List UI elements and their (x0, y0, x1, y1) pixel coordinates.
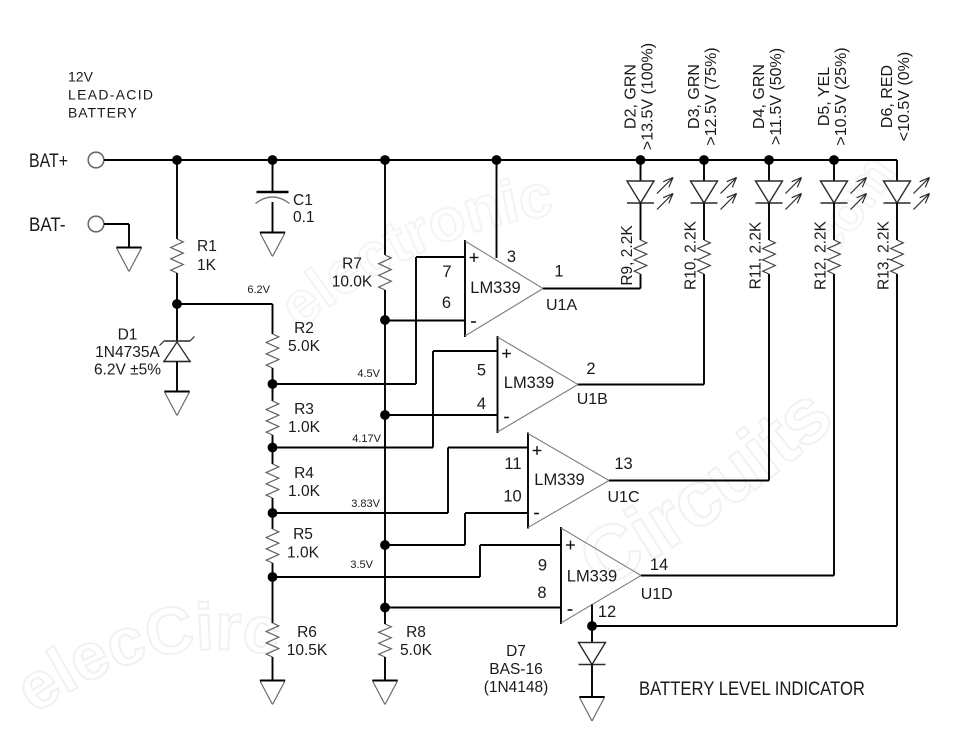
svg-text:10.0K: 10.0K (332, 274, 373, 291)
svg-text:R1: R1 (197, 238, 217, 255)
resistor R3 (266, 401, 279, 435)
node sense U1B (380, 410, 390, 420)
node 4.5V (268, 379, 278, 389)
svg-text:R12, 2.2K: R12, 2.2K (813, 220, 830, 290)
wire bus to C1 (272, 160, 274, 192)
svg-text:>11.5V (50%): >11.5V (50%) (768, 48, 785, 145)
svg-text:6.2V: 6.2V (247, 284, 270, 296)
wire R4 to node 3.83V (272, 498, 274, 529)
wire R13 down (896, 274, 898, 626)
wire node 6.2V to ladder (177, 303, 273, 305)
wire bus to R1 (176, 160, 178, 239)
wire R3 to node 4.17V (272, 435, 274, 464)
wire node 3.5V branch (273, 576, 481, 578)
svg-text:R3: R3 (294, 401, 314, 418)
op-amp U1B minus (504, 417, 509, 419)
svg-text:LM339: LM339 (470, 279, 520, 297)
ground D7 (579, 696, 604, 698)
wire node pin12 to D6 chain (592, 625, 897, 627)
wire bus to pin 3 (496, 160, 498, 258)
svg-text:4.5V: 4.5V (357, 368, 380, 380)
op-amp U1A plus (470, 257, 479, 259)
svg-text:D1: D1 (118, 327, 138, 344)
svg-text:13: 13 (614, 455, 632, 473)
op-amp U1C minus (534, 513, 539, 515)
ground BAT- (116, 246, 141, 248)
svg-text:BATTERY LEVEL INDICATOR: BATTERY LEVEL INDICATOR (639, 679, 865, 700)
svg-text:D5, YEL: D5, YEL (816, 67, 833, 126)
wire U1A output (543, 288, 641, 290)
LED D2 (627, 181, 654, 203)
op-amp U1B (497, 336, 499, 433)
resistor R5 (266, 529, 279, 563)
op-amp U1C plus (533, 450, 542, 452)
LED D6 (884, 181, 911, 203)
ground C1 (260, 231, 285, 233)
svg-text:5.0K: 5.0K (288, 338, 321, 355)
svg-text:3.5V: 3.5V (350, 559, 373, 571)
wire R6 to ground (272, 657, 274, 681)
wire bus to LED D6 (896, 160, 898, 181)
op-amp U1B plus (502, 353, 511, 355)
resistor R10 (698, 240, 711, 274)
svg-text:D6, RED: D6, RED (879, 65, 896, 128)
wire node 4.17V branch (273, 447, 434, 449)
wire C1 to ground (272, 202, 274, 233)
LED D5 (821, 181, 848, 203)
wire node 3.83V branch (273, 512, 449, 514)
resistor R1 (171, 239, 184, 273)
svg-text:14: 14 (650, 556, 668, 574)
resistor R9 (634, 240, 647, 274)
op-amp U1C (527, 433, 529, 529)
svg-text:3: 3 (507, 248, 516, 266)
wire bus to LED D3 (703, 160, 705, 181)
ground R8 (372, 679, 397, 681)
svg-text:<10.5V (0%): <10.5V (0%) (896, 52, 913, 141)
svg-text:7: 7 (442, 263, 451, 281)
svg-text:0.1: 0.1 (293, 209, 315, 226)
svg-text:5.0K: 5.0K (400, 642, 433, 659)
wire BAT- to ground (104, 223, 129, 225)
wire BAT+ bus (104, 159, 897, 161)
ground D1 (164, 390, 189, 392)
svg-text:R8: R8 (406, 624, 426, 641)
resistor R12 (828, 240, 841, 274)
svg-text:R6: R6 (297, 624, 317, 641)
svg-text:R11, 2.2K: R11, 2.2K (748, 221, 765, 289)
wire R8 to ground (384, 657, 386, 681)
svg-text:BAT+: BAT+ (29, 150, 68, 172)
svg-text:BAS-16: BAS-16 (489, 661, 542, 678)
svg-text:4.17V: 4.17V (352, 433, 381, 445)
node bus junctions (172, 155, 182, 165)
wire sense to U1B inverting (385, 414, 498, 416)
capacitor C1 (257, 191, 289, 194)
wire pin 12 to node (591, 605, 593, 627)
svg-text:U1C: U1C (608, 489, 640, 506)
svg-text:(1N4148): (1N4148) (484, 679, 549, 696)
wire D4 to R11 (768, 203, 770, 240)
wire sense to U1D inverting (385, 607, 561, 609)
wire R12 down (833, 274, 835, 576)
svg-text:C1: C1 (293, 192, 313, 209)
svg-text:10.5K: 10.5K (287, 642, 328, 659)
svg-text:2: 2 (586, 360, 595, 378)
resistor R8 (379, 624, 392, 657)
svg-text:D2, GRN: D2, GRN (623, 64, 640, 129)
svg-text:U1D: U1D (641, 586, 673, 603)
wire R5 to node 3.5V (272, 563, 274, 623)
node 4.17V (268, 443, 278, 453)
wire R7 to R8 sense rail (384, 290, 386, 624)
svg-text:BAT-: BAT- (29, 214, 66, 236)
svg-text:6: 6 (442, 294, 451, 312)
svg-text:D7: D7 (506, 643, 526, 660)
wire R9 down (640, 274, 642, 289)
op-amp U1A minus (471, 321, 476, 323)
wire D6 to R13 (896, 203, 898, 240)
svg-text:>10.5V (25%): >10.5V (25%) (833, 47, 850, 145)
svg-text:1.0K: 1.0K (288, 419, 321, 436)
svg-text:R5: R5 (293, 526, 313, 543)
svg-text:>13.5V (100%): >13.5V (100%) (640, 43, 657, 150)
node sense U1D (380, 603, 390, 613)
node 3.83V (268, 508, 278, 518)
terminal BAT+ (88, 152, 104, 168)
wire D2 to R9 (640, 203, 642, 240)
zener D1 (164, 340, 190, 342)
wire R2 to node 4.5V (272, 368, 274, 401)
svg-text:R2: R2 (294, 320, 314, 337)
node pin 12 (587, 621, 597, 631)
resistor R4 (266, 464, 279, 498)
svg-text:1: 1 (554, 263, 563, 281)
node 3.5V (268, 572, 278, 582)
svg-text:D3, GRN: D3, GRN (686, 64, 703, 129)
svg-text:9: 9 (538, 557, 547, 575)
op-amp U1D (560, 527, 562, 624)
svg-text:U1B: U1B (577, 391, 608, 408)
terminal BAT- (88, 216, 104, 232)
wire sense to U1A inverting (385, 320, 465, 322)
node sense U1C (380, 540, 390, 550)
svg-text:12: 12 (598, 603, 616, 621)
op-amp U1D plus (566, 544, 575, 546)
svg-text:LM339: LM339 (504, 374, 554, 392)
wire node to D1 (176, 304, 178, 341)
svg-text:1.0K: 1.0K (287, 545, 320, 562)
wire D1 to ground (176, 362, 178, 392)
svg-text:D4, GRN: D4, GRN (751, 64, 768, 129)
wire R1 to node 6.2V (176, 273, 178, 304)
wire node 4.5V branch (273, 383, 417, 385)
resistor R7 (379, 255, 392, 290)
node 6.2V (172, 299, 182, 309)
svg-text:R7: R7 (342, 256, 362, 273)
resistor R2 (266, 334, 279, 368)
svg-text:U1A: U1A (546, 297, 577, 314)
svg-text:1N4735A: 1N4735A (95, 344, 160, 361)
svg-text:11: 11 (504, 455, 521, 473)
wire bus to R7 (384, 160, 386, 255)
diode D7 (591, 626, 593, 643)
svg-text:8: 8 (537, 584, 546, 602)
resistor R11 (763, 240, 776, 274)
wire U1B output (578, 384, 704, 386)
svg-text:LM339: LM339 (567, 567, 617, 585)
wire D3 to R10 (703, 203, 705, 240)
svg-text:R4: R4 (294, 465, 314, 482)
svg-text:R9, 2.2K: R9, 2.2K (619, 225, 636, 286)
wire bus to LED D2 (640, 160, 642, 181)
node sense U1A (380, 315, 390, 325)
LED D4 (756, 181, 783, 203)
svg-text:LEAD-ACID: LEAD-ACID (68, 87, 153, 103)
wire bus to LED D5 (833, 160, 835, 181)
svg-text:>12.5V (75%): >12.5V (75%) (703, 47, 720, 145)
svg-text:5: 5 (477, 362, 486, 380)
wire R10 down (703, 274, 705, 385)
op-amp U1A (464, 240, 466, 337)
op-amp U1D minus (568, 609, 573, 611)
LED D3 (691, 181, 718, 203)
svg-text:10: 10 (503, 488, 521, 506)
resistor R6 (266, 623, 279, 657)
svg-text:R13, 2.2K: R13, 2.2K (876, 220, 893, 290)
svg-text:12V: 12V (68, 69, 94, 85)
resistor R13 (891, 240, 904, 274)
svg-text:1K: 1K (197, 257, 217, 274)
wire bus to LED D4 (768, 160, 770, 181)
wire D5 to R12 (833, 203, 835, 240)
svg-text:6.2V ±5%: 6.2V ±5% (94, 362, 161, 379)
wire U1D output (641, 575, 834, 577)
svg-text:1.0K: 1.0K (288, 483, 321, 500)
ground R6 (260, 679, 285, 681)
svg-text:4: 4 (477, 395, 486, 413)
svg-text:3.83V: 3.83V (351, 498, 380, 510)
wire U1C output (609, 480, 769, 482)
wire R11 down (768, 274, 770, 481)
wire sense to U1C inverting (385, 544, 465, 546)
svg-text:LM339: LM339 (534, 471, 584, 489)
svg-text:R10, 2.2K: R10, 2.2K (683, 220, 700, 290)
svg-text:BATTERY: BATTERY (68, 105, 138, 121)
